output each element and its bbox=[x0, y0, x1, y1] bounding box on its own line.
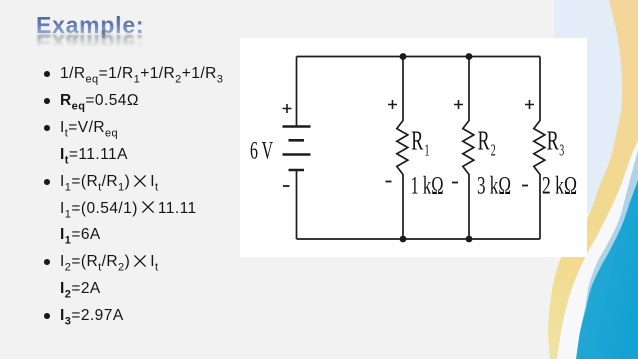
svg-text:R: R bbox=[547, 125, 559, 156]
svg-text:R: R bbox=[478, 125, 490, 156]
svg-text:1 kΩ: 1 kΩ bbox=[411, 173, 444, 200]
svg-text:1: 1 bbox=[425, 141, 430, 160]
svg-text:R: R bbox=[411, 125, 423, 156]
svg-text:2: 2 bbox=[491, 141, 496, 160]
svg-text:3 kΩ: 3 kΩ bbox=[477, 173, 511, 200]
svg-text:3: 3 bbox=[559, 141, 564, 160]
svg-text:2 kΩ: 2 kΩ bbox=[542, 173, 577, 200]
svg-text:6 V: 6 V bbox=[250, 138, 273, 165]
